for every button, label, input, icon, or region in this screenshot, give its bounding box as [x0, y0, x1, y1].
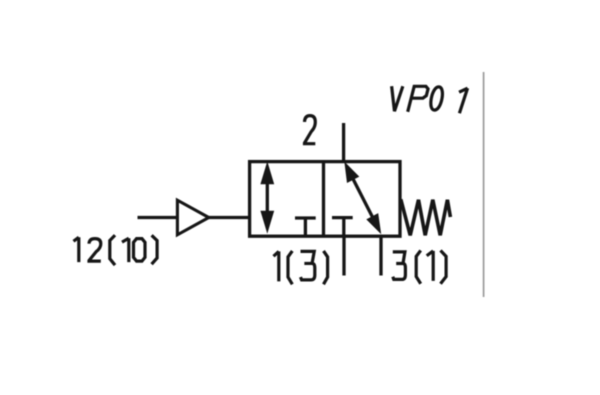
valve code VP01: [386, 86, 402, 111]
port 2 wire: [342, 123, 345, 162]
arrowhead to port 3(1), right chamber: [366, 213, 381, 234]
flow path arrow shaft, left chamber: [266, 171, 269, 224]
blocked port T, right chamber: [332, 216, 353, 219]
return spring: [401, 199, 451, 235]
port 3(1) wire: [379, 236, 382, 276]
valve body box: [250, 162, 400, 237]
wire triangle to valve body: [209, 216, 249, 219]
label port 1(3): [274, 251, 279, 281]
label port 2: [305, 116, 316, 144]
arrowhead up, left chamber: [260, 161, 274, 184]
wire pilot input: [138, 216, 178, 219]
flow path arrow shaft, right chamber (2 to 3): [351, 174, 375, 221]
port 1(3) wire: [342, 236, 345, 276]
label port 12(10): [74, 237, 79, 262]
valve body centre divider: [322, 162, 325, 237]
blocked port T, left chamber: [295, 216, 316, 219]
pilot pressure triangle: [177, 200, 208, 235]
arrowhead to port 2, right chamber: [344, 162, 359, 184]
label port 3(1): [393, 252, 406, 280]
catalogue table rule: [483, 72, 485, 297]
arrowhead down, left chamber: [260, 211, 274, 234]
